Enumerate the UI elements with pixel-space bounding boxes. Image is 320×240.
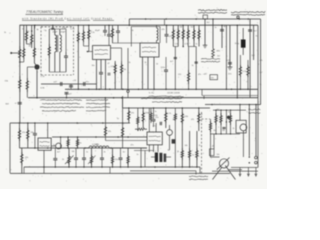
resistor R1 on left vertical	[19, 46, 21, 49]
svg-text:1n: 1n	[86, 152, 88, 154]
svg-text:10k: 10k	[123, 69, 126, 71]
dashed enclosure top stub	[202, 118, 211, 120]
svg-text:1k: 1k	[195, 44, 197, 46]
input terminal stub	[11, 52, 20, 54]
wire drops from y=137 to y=148	[60, 137, 62, 148]
resistor R10 10k	[121, 61, 123, 89]
resistor bank R17 (unlabeled)	[198, 25, 200, 46]
IC U3 crystal oscillator block	[38, 138, 51, 150]
potentiometer P1 wiper diagonal	[217, 158, 230, 170]
wire: inner rail y=133.9	[210, 133, 240, 135]
resistor R30	[77, 137, 79, 148]
svg-text:2k2: 2k2	[173, 119, 176, 121]
resistor bank R13 (unlabeled)	[177, 25, 179, 46]
capacitor C16	[152, 119, 156, 121]
capacitor C20	[101, 148, 103, 158]
svg-text:0.1u: 0.1u	[71, 29, 76, 31]
svg-text:220: 220	[228, 74, 232, 76]
ground symbol under x=205 vertical	[204, 44, 206, 46]
IC U1 discriminator block	[93, 46, 111, 60]
wire y=140.5 into U4	[106, 140, 148, 142]
resistor R20 1k right	[247, 60, 249, 89]
resistor R7 4.7k	[77, 25, 79, 89]
svg-text:15k: 15k	[25, 157, 28, 159]
wire drop x=196	[195, 47, 197, 90]
svg-text:1k: 1k	[177, 151, 179, 153]
svg-text:47k: 47k	[131, 113, 134, 115]
trimmer arrow on R31	[65, 156, 74, 165]
svg-text:4n7: 4n7	[254, 31, 258, 33]
svg-text:1k: 1k	[123, 152, 125, 154]
svg-text:100µ: 100µ	[226, 60, 231, 62]
wire: screen box bottom bus	[49, 71, 66, 73]
wire feeds into U4	[148, 108, 150, 132]
resistor R36 horizontal left of U4	[135, 128, 138, 130]
capacitor C20b	[120, 148, 122, 158]
resistor R9 120	[114, 61, 116, 89]
capacitor C7 n47	[60, 82, 62, 86]
junction dots on mid rail	[36, 97, 38, 99]
svg-text:4µ: 4µ	[168, 150, 171, 152]
note: component value table 4 lines	[40, 99, 82, 102]
svg-text:1k: 1k	[4, 32, 6, 34]
potentiometer P1 circle	[219, 159, 228, 168]
junction dots y=137	[60, 136, 62, 138]
svg-text:1n5: 1n5	[24, 39, 27, 41]
wire: y=157 stub into potentiometer	[210, 156, 220, 158]
meter M1 box	[236, 120, 246, 133]
svg-text:4k7: 4k7	[217, 109, 220, 111]
wire: inner return rail y=170.8	[130, 170, 196, 172]
capacitor C23 47n	[159, 122, 161, 125]
resistor R31 2k	[68, 148, 70, 167]
inductor L2 RF choke above U2	[156, 25, 158, 28]
resistor R32	[91, 148, 93, 167]
wires around electrolytic cluster	[151, 156, 155, 158]
svg-text:10k: 10k	[72, 151, 75, 153]
wire: left border of lower-left loop	[9, 123, 11, 173]
drop from +12V rail to bank	[164, 19, 166, 25]
resistor R38	[181, 131, 183, 167]
svg-text:4.7k: 4.7k	[185, 44, 189, 46]
wire: verticals right of indicator	[239, 105, 241, 121]
resistor R11	[112, 25, 114, 43]
svg-text:680: 680	[217, 51, 221, 53]
svg-text:47k: 47k	[191, 119, 194, 121]
resistor R2 parallel branch	[23, 25, 25, 46]
svg-text:220: 220	[178, 74, 181, 76]
svg-text:6.8k: 6.8k	[41, 88, 46, 90]
svg-text:120: 120	[211, 78, 214, 80]
small box B1 120ohm	[210, 75, 218, 80]
svg-text:40pF: 40pF	[61, 32, 67, 34]
wire verticals top-right	[204, 19, 206, 45]
wire from P1 right	[229, 169, 242, 171]
note: balance adjust label	[189, 175, 208, 178]
junction dots mid-right	[226, 89, 228, 91]
junction dots control rail	[128, 107, 130, 109]
svg-text:4k7: 4k7	[260, 72, 263, 74]
svg-text:n47: n47	[29, 46, 32, 48]
wire: left AF ground rail	[65, 88, 258, 90]
capacitor C15 4n7	[248, 29, 252, 31]
svg-text:10k: 10k	[185, 145, 188, 147]
tiny stub components under top-left rail	[34, 25, 36, 28]
note: Tr R6 values line	[141, 97, 182, 100]
capacitor C11 100n	[165, 57, 167, 70]
capacitor marks on drop x=175	[174, 57, 177, 59]
svg-text:→+12: →+12	[201, 74, 208, 76]
wire: upper supply rail	[20, 24, 259, 26]
wire U1 top feed	[111, 47, 122, 49]
wire: y=150.5 stub rail	[134, 150, 154, 152]
resistor R4 top branch	[26, 25, 28, 44]
resistor R7b parallel	[83, 25, 85, 46]
wire: lower-left rail y=123	[10, 122, 130, 124]
capacitor C9	[117, 25, 119, 30]
capacitor C8 47n	[83, 82, 85, 86]
capacitor C18	[54, 148, 56, 158]
svg-text:47k: 47k	[162, 29, 165, 31]
junction dots lower-left rail	[19, 122, 21, 124]
capacitor C1 electrolytic left	[18, 102, 22, 104]
capacitor C6 coupling	[108, 72, 111, 74]
svg-text:220k: 220k	[154, 115, 158, 117]
capacitor C3	[104, 25, 106, 30]
svg-text:4n7: 4n7	[170, 61, 173, 63]
svg-text:100n: 100n	[95, 144, 99, 146]
wire: centre feed vertical x=122.6	[122, 98, 124, 148]
capacitor C8b on ground stub	[70, 84, 72, 89]
svg-text:with Standards (M) Prod.Cat) t: with Standards (M) Prod.Cat) tuned (of) …	[22, 17, 113, 20]
note: battery charge label	[248, 108, 260, 111]
svg-text:10n: 10n	[217, 154, 220, 156]
capacitor marks on drop x=196	[195, 61, 198, 63]
left inner column of indicator section	[210, 119, 212, 157]
wire: resistor bank bottom ties	[173, 46, 178, 48]
svg-text:1k: 1k	[260, 84, 262, 86]
junction dots on AF ground rail	[78, 89, 80, 91]
note top-right: connections to tuning	[198, 10, 227, 11]
svg-text:1n: 1n	[155, 111, 157, 113]
transformer T1 core	[56, 35, 58, 52]
wire: coil top bus	[49, 28, 66, 30]
wire: Q1 emitter down	[36, 70, 38, 98]
svg-text:2k: 2k	[104, 152, 106, 154]
IC U2 IF amplifier block	[140, 43, 159, 57]
svg-text:1k: 1k	[199, 145, 201, 147]
wire U3 feed from rail	[47, 123, 49, 138]
svg-text:2n: 2n	[256, 36, 258, 38]
text row2 under ground rail	[149, 95, 184, 98]
svg-text:2k: 2k	[62, 159, 64, 161]
resistor R22 220k	[142, 108, 144, 128]
junction dots bottom rails	[43, 166, 45, 168]
IC U1 pins down to ground rail	[96, 60, 98, 90]
svg-text:1k: 1k	[212, 146, 214, 148]
wire: control rail y=108	[123, 107, 210, 109]
resistor R6 inside screen box	[48, 29, 50, 72]
svg-text:40: 40	[27, 31, 30, 33]
svg-text:10k: 10k	[222, 130, 225, 132]
wire drop from left vertical into rail	[19, 122, 21, 124]
svg-text:4n7: 4n7	[57, 152, 60, 154]
capacitor C19	[75, 148, 77, 158]
svg-text:10n: 10n	[92, 65, 95, 67]
svg-text:120k: 120k	[184, 116, 188, 118]
svg-text:100µ: 100µ	[235, 43, 240, 45]
svg-text:47n: 47n	[86, 81, 90, 83]
capacitor C22 in indicator cluster	[222, 127, 225, 129]
svg-text:2k: 2k	[145, 62, 147, 64]
svg-text:47: 47	[108, 63, 110, 65]
electrolytic cluster (dark blobs) bottom centre	[155, 153, 158, 163]
potentiometer legs diagonal right	[225, 166, 235, 180]
svg-text:47k: 47k	[260, 60, 263, 62]
IC U4 output stage block	[147, 132, 162, 145]
svg-text:1k2: 1k2	[217, 56, 220, 58]
resistor R19 4.7k right	[239, 55, 241, 89]
resistor R29	[67, 137, 69, 148]
resistor R24 120k	[181, 108, 183, 131]
wire drop x=153.5	[153, 108, 155, 119]
svg-text:1k: 1k	[129, 62, 131, 64]
wire: rail y=137 segment	[52, 136, 147, 138]
svg-text:47n: 47n	[155, 117, 158, 119]
junction dots on ground rail centre	[140, 166, 142, 168]
svg-text:47n: 47n	[153, 126, 156, 128]
svg-text:4k7: 4k7	[224, 26, 227, 28]
svg-text:6k8: 6k8	[6, 104, 10, 106]
resistor R21b 47k	[137, 108, 139, 131]
extra cap near x=52 under rail	[51, 27, 54, 29]
svg-text:77B AUTOMATIC Tuning: 77B AUTOMATIC Tuning	[26, 10, 63, 14]
resistor R11b mid	[188, 47, 190, 90]
resistor bank R12 1.5k	[172, 25, 174, 46]
svg-text:1n: 1n	[201, 114, 203, 116]
svg-text:2n: 2n	[137, 154, 139, 156]
svg-text:47k: 47k	[22, 132, 25, 134]
svg-text:+20: +20	[73, 80, 77, 82]
wire: right box bottom y=167.4	[231, 166, 258, 168]
wire: long mid horizontal rail	[28, 97, 258, 99]
capacitor C21 dark	[172, 139, 176, 143]
svg-text:100n: 100n	[77, 143, 81, 145]
wire: y=171.2 rail right	[212, 170, 258, 172]
svg-text:2k2: 2k2	[207, 22, 210, 24]
svg-text:10k: 10k	[180, 27, 183, 29]
inductor L1 2.2mH	[85, 147, 89, 149]
meter M1 circle	[240, 124, 247, 131]
junction dots indicator cluster	[215, 110, 216, 111]
wire: rail y=148 under table	[20, 147, 148, 149]
step line right of ground rail	[201, 89, 203, 95]
svg-text:1.5k: 1.5k	[175, 44, 179, 46]
more bottom-centre verticals	[140, 148, 142, 167]
svg-text:47n: 47n	[131, 145, 134, 147]
resistor R8 2.2k	[88, 25, 90, 46]
svg-text:10: 10	[156, 64, 158, 66]
wire U3 output down	[43, 150, 45, 173]
svg-text:10n: 10n	[115, 159, 118, 161]
transformer T1 secondary coil	[60, 35, 62, 52]
wire to IC1 input with dot	[88, 46, 90, 52]
svg-text:1n: 1n	[22, 29, 24, 31]
svg-text:n47: n47	[54, 81, 58, 83]
terminal circle on mid rail	[127, 90, 129, 92]
resistor R21	[128, 108, 130, 123]
trimmer arrow on R32	[88, 156, 96, 165]
svg-text:1n: 1n	[228, 112, 230, 114]
transistor Q3 beside U3	[56, 143, 62, 149]
wire: right border drop from +12V rail	[260, 19, 262, 105]
svg-text:1k: 1k	[132, 30, 134, 32]
capacitor C-mid on stub	[66, 92, 68, 98]
wire/junction node A	[27, 43, 32, 45]
wire: right box corner at x=204	[203, 96, 205, 99]
IC U2 pins to ground	[142, 57, 144, 89]
svg-text:100n: 100n	[161, 67, 166, 69]
svg-text:4.7k: 4.7k	[167, 113, 171, 115]
transformer T1 primary coil	[55, 35, 57, 52]
capacitor C19b	[83, 148, 85, 158]
svg-text:4.7k: 4.7k	[243, 71, 247, 73]
svg-text:n47: n47	[69, 94, 72, 96]
resistor R39	[189, 131, 191, 167]
note: to deflection coils	[201, 58, 220, 61]
resistor R27 33k	[27, 123, 29, 148]
wire joining R11/C9 into IF block	[113, 42, 141, 44]
transistor Q2 bottom centre	[169, 125, 171, 130]
dark dot component	[227, 116, 230, 119]
wire: centre vertical x=105.5 with resistor	[105, 98, 107, 141]
wire branch to mixer	[31, 25, 33, 48]
capacitor C4 40pF	[108, 25, 110, 34]
resistors inside indicator section	[215, 110, 217, 134]
wire: right rail y=104.5	[205, 104, 261, 106]
resistor R28 15k lower	[21, 148, 23, 173]
svg-text:4p: 4p	[37, 29, 39, 31]
svg-text:1453B 1453B: 1453B 1453B	[167, 92, 180, 94]
svg-text:2p: 2p	[45, 30, 47, 32]
resistor bank R14 4.7k	[182, 25, 184, 46]
resistor R3 15k lower left	[19, 76, 21, 80]
svg-text:1n5: 1n5	[191, 27, 194, 29]
wire verticals right cluster	[225, 25, 227, 89]
capacitor C5 under U1	[99, 72, 103, 74]
small box B2	[210, 149, 215, 156]
svg-text:40pF: 40pF	[53, 32, 59, 34]
wire drops right of U2	[174, 47, 176, 90]
svg-text:4k7: 4k7	[214, 130, 217, 132]
wire vertical x=250 with cap	[249, 19, 251, 98]
IC U4 pins down	[148, 145, 150, 152]
wire: bus rectangle to IF block	[131, 26, 160, 28]
output terminal circles	[255, 156, 258, 159]
small box on top-right rail	[203, 15, 208, 19]
wire: ground rail y=167	[24, 166, 200, 168]
potentiometer legs diagonal left	[213, 167, 222, 179]
dashed enclosure left edge of indicator section	[201, 112, 203, 175]
wire: rail interconnect at x=129	[128, 19, 130, 25]
trimmer capacitor C2	[64, 55, 68, 57]
svg-text:40pF: 40pF	[95, 30, 100, 32]
capacitor C12	[220, 29, 224, 31]
note top-right: converter to deflection coils	[231, 12, 265, 13]
svg-text:1n: 1n	[192, 155, 194, 157]
wire: +12V top rail	[129, 18, 260, 20]
wire: mid bypass bus with caps	[41, 83, 97, 85]
wire: Q1 collector branch with resistor	[27, 66, 34, 68]
svg-text:2.2k: 2.2k	[91, 32, 95, 34]
svg-text:+: +	[15, 102, 17, 105]
svg-text:15k: 15k	[5, 81, 9, 83]
wire: bottom rail y=173.4	[10, 172, 230, 174]
resistor R33 10n	[112, 148, 114, 167]
svg-text:Tr. Ru: Tr. Ru	[149, 91, 155, 94]
down arrows bottom right	[239, 167, 241, 175]
resistor R25 1k	[198, 108, 200, 131]
svg-text:33k: 33k	[31, 132, 34, 134]
wire: inner rail y=110.2	[213, 109, 246, 111]
svg-text:220k: 220k	[145, 113, 149, 115]
right border vertical	[257, 25, 259, 98]
resistor R5	[33, 25, 35, 63]
wire: vertical feed to terminal x=128	[127, 48, 129, 90]
electrolytic capacitor C13 100u	[228, 62, 232, 64]
junction dots y=104.5	[211, 104, 213, 106]
svg-text:1n: 1n	[53, 145, 55, 147]
resistor R37b 220k upper	[150, 108, 152, 123]
resistor R23 4.7k	[165, 108, 167, 128]
resistor bank R16 1k	[193, 25, 195, 46]
wire x=175 long drop with resistor	[174, 108, 176, 167]
svg-text:2n2: 2n2	[252, 55, 255, 57]
svg-text:0.4µF: 0.4µF	[62, 28, 68, 30]
junction dots on top rails	[145, 18, 147, 20]
resistor R34	[127, 148, 129, 167]
svg-text:1k: 1k	[192, 65, 194, 67]
resistor bank R15 (unlabeled)	[187, 25, 189, 46]
resistor R40	[196, 131, 198, 167]
resistor R26 47k	[19, 123, 21, 148]
svg-text:47n: 47n	[198, 74, 201, 76]
junction dots on y=148 rail	[34, 147, 36, 149]
bold electrolytic capacitor C14 (dark bar)	[242, 28, 244, 40]
resistor R18 680	[212, 47, 214, 50]
terminal circle top right	[237, 16, 239, 18]
wire: rail interconnects	[199, 167, 201, 173]
capacitor C10 47n	[166, 25, 168, 34]
svg-text:2.2k: 2.2k	[41, 76, 46, 78]
svg-text:Tp: Tp	[117, 118, 120, 120]
svg-text:47k: 47k	[108, 131, 111, 133]
ground symbol under C13	[227, 66, 232, 68]
svg-text:1n: 1n	[215, 27, 217, 29]
wire vertical x=253.6	[253, 25, 255, 60]
transistor Q1 (dark blob)	[34, 64, 39, 69]
dashed screen box around oscillator coil	[41, 26, 74, 28]
svg-text:2k: 2k	[233, 128, 235, 130]
right border lower segment	[257, 98, 259, 168]
wire: left main vertical	[19, 25, 21, 123]
capacitor C17 10n	[34, 123, 36, 133]
